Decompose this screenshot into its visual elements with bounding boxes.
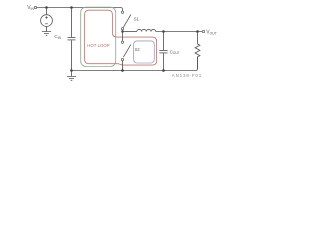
blue loop: [134, 41, 155, 63]
svg-text:VIN: VIN: [27, 5, 34, 11]
terminal Vout: [202, 30, 204, 32]
net label Vin: [27, 5, 34, 11]
svg-text:VOUT: VOUT: [206, 29, 217, 35]
junction node G (Vout): [196, 30, 199, 33]
junction node E (L/Cout): [162, 30, 165, 33]
capacitor Cout: [163, 32, 165, 51]
green loop: [81, 7, 116, 66]
wire to source: [46, 8, 48, 15]
junction node B: [70, 6, 73, 9]
resistor Rload: [195, 32, 200, 69]
svg-text:AN139-F01: AN139-F01: [172, 73, 202, 78]
junction node F (Cout bottom): [162, 69, 165, 72]
wire bottom rail: [72, 57, 198, 71]
junction node SW: [121, 30, 124, 33]
switch S1: [121, 11, 123, 13]
red hot loop: [85, 10, 157, 65]
svg-text:HOT LOOP: HOT LOOP: [87, 43, 110, 48]
wire mid rail right: [156, 31, 203, 33]
ground (below source): [46, 27, 48, 32]
switch S2: [122, 32, 124, 42]
svg-text:CIN: CIN: [54, 34, 61, 40]
svg-text:COUT: COUT: [170, 49, 180, 55]
junction node A: [45, 6, 48, 9]
inductor L1: [137, 29, 156, 31]
junction node C: [70, 69, 73, 72]
ground (input rail): [71, 71, 73, 77]
capacitor Cin: [71, 8, 73, 38]
junction node D (S2 bottom rail): [121, 69, 124, 72]
voltage source V1: [41, 15, 53, 27]
svg-text:S1: S1: [134, 17, 140, 22]
svg-text:S2: S2: [135, 47, 141, 52]
wire top rail: [37, 8, 123, 12]
terminal Vin: [34, 6, 36, 8]
wire mid rail left: [123, 31, 137, 33]
